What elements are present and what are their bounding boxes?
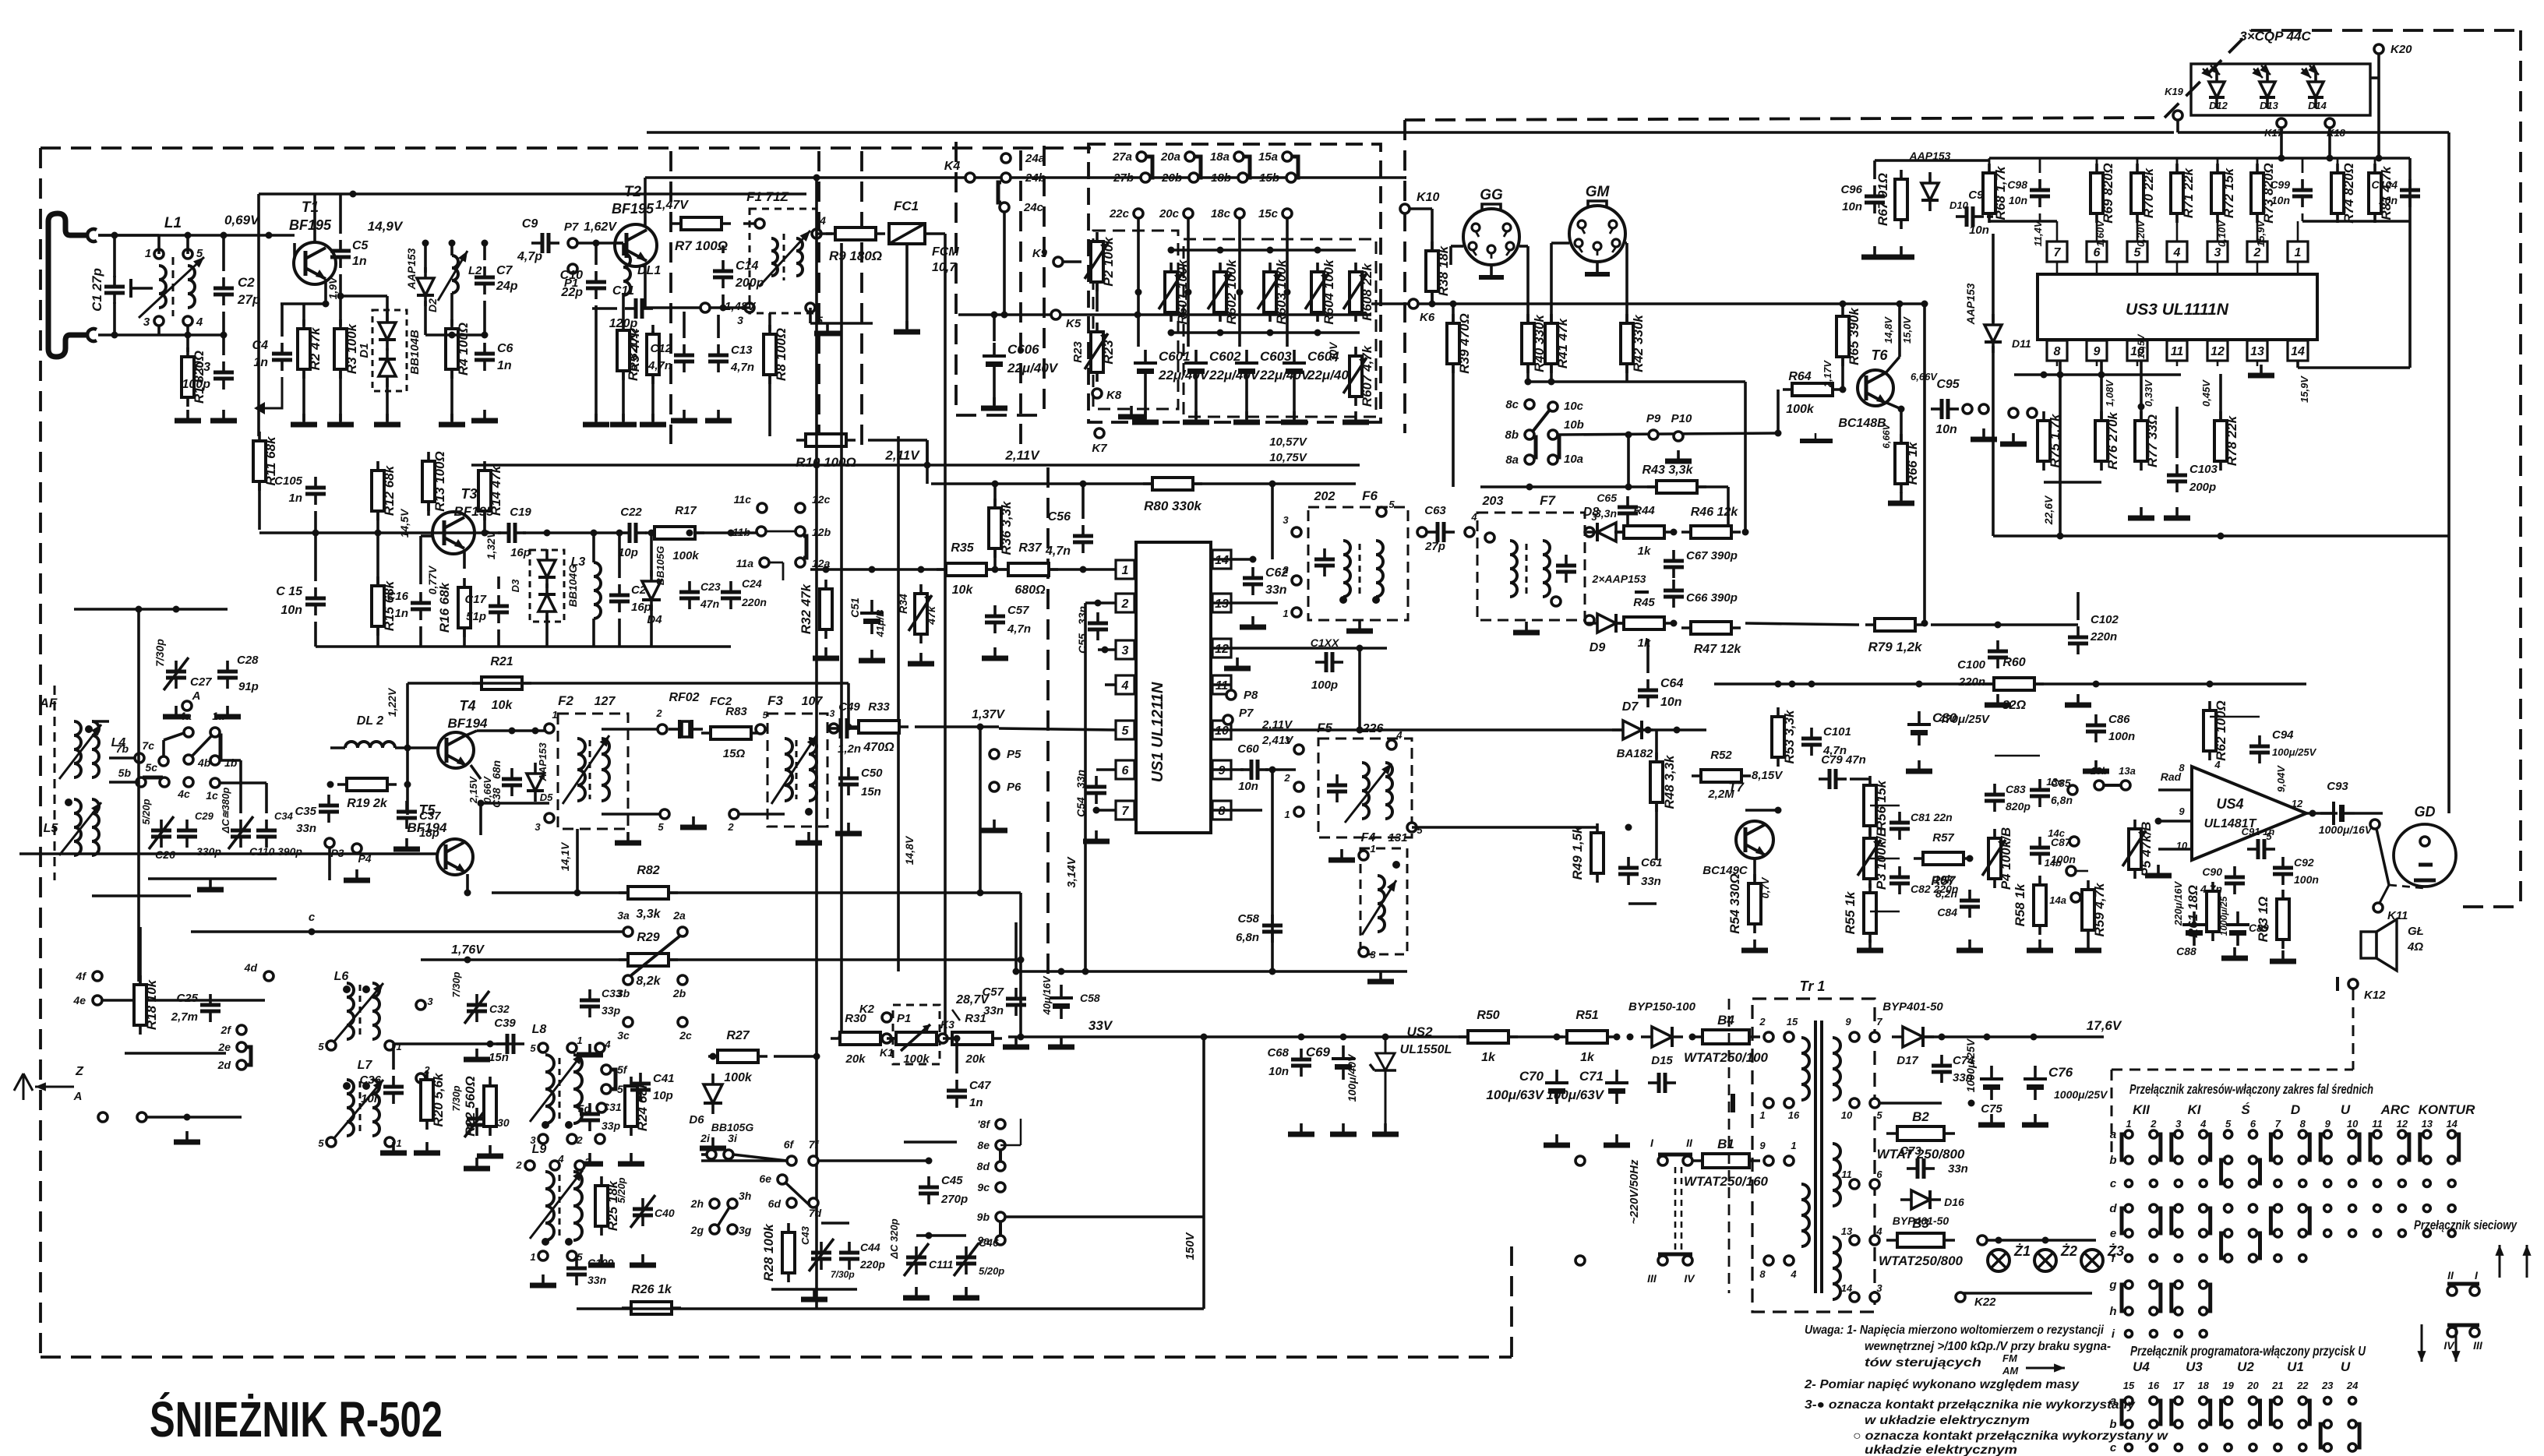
- svg-text:4: 4: [1790, 1268, 1797, 1280]
- transformer F5 226 box: [1318, 739, 1412, 837]
- svg-text:10a: 10a: [1564, 453, 1583, 466]
- svg-text:4f: 4f: [76, 970, 87, 982]
- terminal 15b: [1286, 173, 1296, 182]
- svg-text:D15: D15: [1651, 1054, 1673, 1067]
- wire R39 down: [1452, 365, 1455, 487]
- svg-text:C 15: C 15: [276, 585, 303, 598]
- resistor R40: [1522, 314, 1547, 373]
- svg-text:R7 100Ω: R7 100Ω: [675, 238, 728, 253]
- terminal L7 pin1: [385, 1137, 394, 1147]
- wire dashed K12 down: [2352, 989, 2355, 1070]
- wire C7 top: [483, 243, 486, 260]
- svg-text:BA182: BA182: [1617, 747, 1653, 760]
- resistor R83 15: [701, 727, 760, 739]
- wire R2 down: [302, 371, 305, 421]
- wire L5 bottom out: [92, 894, 191, 897]
- inductor Tr1 secondary3: [1833, 1237, 1840, 1299]
- svg-text:C46: C46: [979, 1236, 999, 1249]
- svg-text:IV: IV: [2443, 1339, 2455, 1352]
- resistor R76: [2095, 411, 2120, 471]
- svg-text:R23: R23: [1071, 341, 1085, 363]
- wire pin5 row: [1879, 1102, 1942, 1105]
- svg-text:20a: 20a: [1160, 150, 1180, 164]
- terminal Tr1 pin4b: [1870, 1236, 1879, 1245]
- wire R40-R42 bottom join: [1528, 380, 1745, 383]
- svg-text:GG: GG: [1480, 187, 1503, 203]
- wire pin4 row: [1105, 683, 1116, 686]
- svg-text:14,8V: 14,8V: [1882, 316, 1894, 344]
- wire C602 down: [1194, 384, 1198, 419]
- terminal 7f: [809, 1156, 818, 1165]
- svg-text:KII: KII: [2133, 1102, 2151, 1117]
- svg-text:R58 1k: R58 1k: [2013, 883, 2027, 926]
- svg-text:C95: C95: [1936, 378, 1960, 391]
- wire to T2 stage: [577, 241, 623, 245]
- svg-text:T4: T4: [459, 698, 475, 714]
- svg-text:18c: 18c: [1211, 207, 1231, 220]
- svg-text:R65 390k: R65 390k: [1847, 307, 1861, 365]
- svg-text:R51: R51: [1575, 1009, 1598, 1022]
- wire bottom row y1247: [1013, 970, 1407, 973]
- wire US3 top supply bus: [1989, 157, 2410, 160]
- svg-text:5: 5: [530, 1042, 536, 1054]
- svg-text:C14: C14: [736, 259, 758, 273]
- svg-text:14b: 14b: [2045, 857, 2062, 869]
- svg-text:10b: 10b: [1564, 418, 1584, 432]
- resistor R58: [2013, 876, 2046, 935]
- resistor R45 1k: [1614, 617, 1674, 629]
- svg-text:C56: C56: [1048, 510, 1071, 524]
- pin 11 US1 right: [1212, 675, 1231, 694]
- capacitor C67 390p: [1664, 550, 1684, 578]
- wire T3 base down: [419, 536, 422, 584]
- svg-text:R71 22k: R71 22k: [2181, 167, 2196, 218]
- svg-text:C9: C9: [522, 217, 538, 231]
- terminal F5 pin4: [1387, 740, 1396, 749]
- svg-text:DL 2: DL 2: [357, 714, 383, 728]
- svg-text:R18 10k: R18 10k: [144, 978, 159, 1030]
- ground R24: [618, 1153, 644, 1164]
- svg-text:C47: C47: [969, 1079, 991, 1092]
- pin 9 US3 bottom: [2087, 340, 2107, 361]
- terminal K12: [2348, 979, 2358, 989]
- terminal 27b: [1141, 173, 1150, 182]
- svg-text:C86: C86: [2108, 713, 2130, 726]
- svg-text:9c: 9c: [977, 1181, 990, 1193]
- resistor R68 1,7k: [1983, 164, 2008, 223]
- terminal P3: [325, 838, 334, 848]
- svg-text:4e: 4e: [72, 994, 86, 1007]
- svg-text:C29: C29: [195, 810, 214, 822]
- wire pin8 down: [2059, 361, 2062, 536]
- wire L1 bottom bus: [159, 333, 224, 337]
- inductor Tr1 primary lower: [1801, 1184, 1809, 1246]
- capacitor C84 8,2n: [1960, 890, 1980, 918]
- svg-text:22: 22: [2296, 1380, 2309, 1391]
- wire pot bottom bus: [1171, 331, 1360, 334]
- terminal K6: [1409, 299, 1418, 308]
- node C1 bottom: [111, 332, 118, 339]
- svg-text:5/20p: 5/20p: [616, 1177, 627, 1203]
- wire DL2 right: [395, 746, 438, 749]
- svg-text:K5: K5: [1066, 317, 1081, 330]
- svg-text:g: g: [2108, 1278, 2116, 1292]
- terminal P4: [352, 844, 362, 853]
- transistor T7 BC149C: [1736, 821, 1773, 858]
- contact bar 24b-24c: [998, 182, 1001, 203]
- terminal Tr1 pin2: [1764, 1032, 1773, 1042]
- svg-text:1,2n: 1,2n: [838, 742, 861, 756]
- svg-text:22p: 22p: [560, 286, 583, 299]
- resistor R62: [2204, 700, 2228, 761]
- svg-text:2: 2: [1282, 564, 1289, 576]
- wire 11a stub: [769, 562, 783, 564]
- inductor L8 secondary: [573, 1055, 582, 1123]
- wire GG right pin out: [1519, 245, 1528, 248]
- svg-text:C35: C35: [295, 805, 316, 818]
- terminal K20: [2374, 44, 2383, 54]
- ground C84: [1957, 940, 1983, 950]
- wire dashed keyboard right border: [1403, 120, 1406, 433]
- ground P4: [344, 869, 370, 880]
- terminal K2: [882, 1013, 891, 1022]
- svg-text:R608 22k: R608 22k: [1360, 263, 1374, 321]
- wire dashed top border right of keyboard: [1405, 118, 2165, 120]
- svg-text:3: 3: [535, 821, 541, 833]
- wire to C60x: [1137, 292, 1140, 347]
- resistor R50 1k: [1459, 1031, 1518, 1043]
- ground C4: [265, 377, 282, 408]
- svg-text:K1: K1: [880, 1046, 894, 1059]
- svg-text:3: 3: [1283, 514, 1289, 526]
- node C1 top: [111, 232, 118, 239]
- wire x1633 drop: [1271, 770, 1274, 971]
- svg-text:6: 6: [2094, 246, 2101, 259]
- wire T2 collector up: [644, 178, 647, 227]
- svg-text:C24: C24: [742, 577, 762, 590]
- wire pin7 row: [1096, 809, 1116, 812]
- svg-text:3: 3: [1122, 644, 1129, 657]
- svg-text:R29: R29: [637, 931, 659, 944]
- svg-text:III: III: [1647, 1272, 1657, 1285]
- wire P9 row: [1558, 433, 1780, 435]
- wire GM pin to R41: [1550, 257, 1553, 322]
- wire 33V bus: [1008, 1035, 1563, 1038]
- wire pin6 row: [1096, 768, 1116, 771]
- resistor R44 1k: [1614, 526, 1674, 538]
- terminal Tr1 pin6: [1870, 1179, 1879, 1189]
- wire pin13 row: [1212, 601, 1278, 605]
- terminal antenna feed top: [87, 229, 97, 241]
- svg-text:R53 3,3k: R53 3,3k: [1782, 709, 1797, 764]
- svg-text:3: 3: [737, 314, 743, 326]
- svg-text:33p: 33p: [602, 1004, 621, 1017]
- wire pin8-11 bus y481: [2014, 373, 2181, 376]
- wire pin9 to R76: [2100, 361, 2103, 419]
- svg-text:K22: K22: [1974, 1296, 1996, 1309]
- terminal L1 pin5: [183, 249, 192, 259]
- terminal P7: [568, 238, 577, 248]
- terminal F5 pin3: [1294, 745, 1304, 754]
- svg-text:T6: T6: [1871, 347, 1888, 363]
- svg-text:1k: 1k: [1481, 1051, 1496, 1064]
- resistor R4: [446, 319, 471, 379]
- svg-text:A: A: [73, 1090, 83, 1103]
- svg-text:U1: U1: [2287, 1359, 2304, 1374]
- svg-text:D14: D14: [2308, 100, 2327, 111]
- svg-text:13: 13: [2250, 345, 2264, 358]
- svg-text:II: II: [1686, 1137, 1693, 1149]
- terminal 7b: [135, 753, 144, 763]
- ground C10: [583, 414, 609, 425]
- svg-text:R48 3,3k: R48 3,3k: [1662, 754, 1677, 809]
- terminal F2 pin3: [545, 813, 554, 823]
- capacitor C85 6,8n: [2030, 779, 2050, 807]
- svg-text:15: 15: [1787, 1016, 1798, 1028]
- svg-text:R4 100Ω: R4 100Ω: [456, 323, 471, 375]
- pin 7 US3: [2047, 241, 2067, 262]
- svg-text:K4: K4: [944, 160, 961, 173]
- wire pin14 row: [1212, 558, 1253, 561]
- svg-text:8,2k: 8,2k: [636, 975, 661, 988]
- svg-text:C92: C92: [2294, 856, 2314, 869]
- resistor R42: [1621, 314, 1646, 373]
- svg-text:R32 47k: R32 47k: [799, 583, 813, 634]
- wire emitter to C4: [281, 302, 326, 305]
- svg-text:C32: C32: [489, 1003, 510, 1015]
- svg-text:AM: AM: [2002, 1365, 2019, 1377]
- wire A bus: [146, 1116, 242, 1119]
- svg-text:C81 22n: C81 22n: [1911, 811, 1953, 823]
- svg-text:12: 12: [2397, 1118, 2408, 1130]
- capacitor C39 15n: [496, 1034, 524, 1054]
- wire K18 down: [2328, 128, 2331, 158]
- wire C14 top: [722, 245, 725, 253]
- svg-text:R13 100Ω: R13 100Ω: [432, 451, 447, 512]
- capacitor C4 1n: [272, 343, 292, 371]
- terminal L9 pin5: [567, 1251, 577, 1260]
- svg-text:C51: C51: [849, 598, 861, 618]
- wire R65 to base: [1841, 358, 1844, 390]
- terminal Tr1 pin15: [1784, 1032, 1794, 1042]
- svg-text:R74 820Ω: R74 820Ω: [2341, 163, 2356, 224]
- terminal 2e: [237, 1042, 246, 1052]
- terminal mains L: [1575, 1156, 1585, 1165]
- svg-text:68n: 68n: [490, 760, 503, 779]
- resistor R24: [625, 1077, 650, 1136]
- wire blade 4b-1a: [192, 735, 212, 756]
- ground C51: [859, 650, 885, 661]
- pin 13 US1 right: [1212, 594, 1231, 612]
- capacitor C604 22u40V: [1283, 349, 1359, 384]
- capacitor F5 internal: [1327, 774, 1347, 802]
- inductor F6 secondary: [1376, 541, 1383, 597]
- svg-text:24p: 24p: [496, 280, 518, 293]
- svg-text:27p: 27p: [1424, 540, 1445, 553]
- wire 22c down: [1137, 218, 1140, 292]
- inductor F3 secondary: [809, 739, 817, 801]
- wire pot top bus: [1171, 249, 1356, 252]
- wire R14 down: [483, 513, 486, 533]
- arrow L9: [530, 1170, 583, 1239]
- resistor R79: [1865, 619, 1925, 654]
- terminal P1: [568, 264, 577, 273]
- filter FC1 10.7MHz: [889, 224, 925, 244]
- svg-text:47n: 47n: [700, 598, 719, 610]
- svg-text:R17: R17: [675, 504, 697, 517]
- wire dashed divider x1345: [1046, 467, 1050, 974]
- capacitor C110 AC380p: [231, 820, 251, 848]
- svg-text:w układzie elektrycznym: w układzie elektrycznym: [1865, 1414, 2030, 1427]
- wire D1 top: [386, 296, 389, 321]
- svg-text:C84: C84: [1937, 906, 1957, 918]
- potentiometer P1 100k: [887, 1032, 946, 1045]
- ground R54: [1741, 940, 1768, 950]
- svg-text:10n: 10n: [2379, 194, 2398, 206]
- wire C10 down: [595, 305, 598, 421]
- svg-text:1k: 1k: [1580, 1051, 1595, 1064]
- svg-text:10n: 10n: [1969, 224, 1989, 237]
- wire 150V riser: [1202, 1037, 1205, 1309]
- inductor F2 secondary: [602, 739, 609, 801]
- potentiometer R23: [1091, 323, 1116, 382]
- capacitor C26 5/20p: [151, 820, 171, 848]
- wire switch blade 8b-10c: [1533, 410, 1550, 432]
- capacitor C33 33p: [580, 989, 600, 1017]
- capacitor C25 2,7n: [200, 994, 221, 1022]
- capacitor C83 820p: [1985, 784, 2005, 812]
- terminal F3 pin2: [729, 809, 739, 819]
- ground F6: [1346, 620, 1373, 631]
- resistor R29 8,2k: [619, 954, 678, 966]
- transistor T1 BF195: [294, 242, 336, 284]
- wire R16 down: [463, 629, 466, 647]
- capacitor C601 22u40V: [1134, 349, 1210, 384]
- terminal 7d: [809, 1198, 818, 1207]
- capacitor C13 4,7n: [708, 344, 729, 372]
- svg-text:10n: 10n: [2009, 194, 2027, 206]
- svg-text:1,22V: 1,22V: [386, 687, 398, 717]
- pin 13 US3 bottom: [2247, 340, 2267, 361]
- wire T4 emitter down: [471, 765, 481, 779]
- diode D6 BB105G: [704, 1073, 722, 1114]
- potentiometer P3 100k: [1864, 827, 1889, 890]
- svg-text:22μ/40V: 22μ/40V: [1007, 361, 1059, 375]
- svg-text:P5 47k/B: P5 47k/B: [2139, 822, 2154, 877]
- ground C68: [1288, 1123, 1314, 1134]
- capacitor C89 1000u25V: [2226, 911, 2249, 946]
- svg-text:17: 17: [2173, 1380, 2185, 1391]
- ground C602: [1183, 411, 1209, 422]
- resistor R61: [2186, 882, 2219, 941]
- pin 6 US3: [2087, 241, 2107, 262]
- svg-text:4: 4: [557, 1153, 564, 1165]
- capacitor C65 3,3n: [1618, 496, 1638, 524]
- svg-text:100μ/63V: 100μ/63V: [1486, 1088, 1544, 1102]
- svg-text:220n: 220n: [1958, 675, 1985, 689]
- wire R21 row: [408, 682, 849, 685]
- resistor R73 820Ω: [2251, 163, 2276, 224]
- ground C52: [1048, 1036, 1074, 1047]
- diode D7 BA182: [1612, 721, 1653, 739]
- wire audio top rail y878: [1714, 682, 2306, 686]
- node F4 dot: [1392, 861, 1400, 869]
- wire F1 to R9: [817, 232, 832, 235]
- terminal K7: [1095, 428, 1104, 438]
- contact bar 2e-2d: [246, 1047, 251, 1065]
- wire L1 tap: [131, 287, 153, 290]
- contact row c circles: [2126, 1180, 2133, 1187]
- svg-text:D2: D2: [426, 298, 439, 312]
- wire L3 down: [592, 619, 595, 647]
- capacitor C47 1n: [947, 1080, 967, 1108]
- wire 6f row: [701, 1159, 787, 1162]
- svg-text:B3: B3: [1912, 1216, 1929, 1231]
- wire GM pin2 to R42: [1625, 257, 1628, 322]
- ground R4: [439, 414, 465, 425]
- svg-text:1n: 1n: [969, 1096, 983, 1109]
- diode D16 BYP401-50: [1900, 1190, 1941, 1209]
- resistor R49: [1570, 823, 1604, 883]
- terminal 18a: [1234, 152, 1244, 161]
- gnd stub near R64: [1800, 439, 1833, 443]
- svg-text:1c: 1c: [206, 789, 218, 802]
- capacitor C11 120p: [625, 298, 653, 319]
- svg-text:10: 10: [2347, 1118, 2359, 1130]
- wire pin row join: [2302, 220, 2410, 223]
- capacitor C92 100n: [2273, 857, 2293, 885]
- ground R34: [908, 653, 934, 664]
- svg-text:4: 4: [1121, 679, 1129, 693]
- resistor R13: [422, 451, 447, 512]
- svg-text:R67 91Ω: R67 91Ω: [1875, 173, 1890, 226]
- svg-text:R62 100Ω: R62 100Ω: [2214, 700, 2228, 761]
- svg-text:Przełącznik programatora-włącz: Przełącznik programatora-włączony przyci…: [2130, 1343, 2366, 1359]
- svg-text:2h: 2h: [690, 1197, 704, 1210]
- capacitor C41 10p: [630, 1073, 651, 1101]
- svg-text:C83: C83: [2006, 783, 2026, 795]
- ground R58: [2027, 940, 2053, 950]
- svg-text:15: 15: [2123, 1380, 2135, 1391]
- svg-text:7d: 7d: [809, 1207, 822, 1219]
- switch bar lower: [1658, 1253, 1692, 1257]
- svg-text:1: 1: [145, 247, 151, 260]
- ground C12: [671, 410, 697, 421]
- svg-text:R34: R34: [897, 594, 909, 614]
- svg-text:L9: L9: [532, 1143, 547, 1156]
- arrow F5 tuning: [1345, 763, 1392, 823]
- svg-text:Tr 1: Tr 1: [1800, 978, 1826, 994]
- svg-text:220p: 220p: [859, 1258, 885, 1271]
- core F3: [796, 740, 798, 799]
- wire R18 top: [139, 927, 142, 983]
- svg-text:33p: 33p: [602, 1119, 621, 1132]
- resistor R48: [1650, 753, 1677, 812]
- svg-text:C44: C44: [860, 1241, 880, 1253]
- svg-text:1,47V: 1,47V: [655, 199, 689, 212]
- svg-text:T3: T3: [460, 486, 477, 502]
- svg-text:C76: C76: [2048, 1065, 2073, 1080]
- wire C17 top: [497, 576, 500, 589]
- resistor R65: [1837, 307, 1861, 366]
- svg-text:Ż2: Ż2: [2060, 1243, 2077, 1259]
- svg-text:2i: 2i: [700, 1132, 711, 1144]
- wire R13 down: [427, 503, 430, 516]
- inductor Tr1 secondary2: [1833, 1144, 1840, 1206]
- svg-text:P4 100k/B: P4 100k/B: [1999, 827, 2013, 890]
- svg-text:5: 5: [1122, 724, 1130, 738]
- svg-text:100p: 100p: [1311, 679, 1338, 692]
